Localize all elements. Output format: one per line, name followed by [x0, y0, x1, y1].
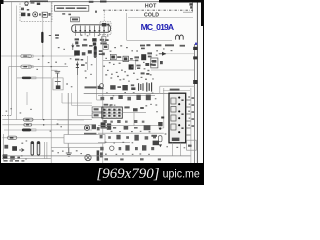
wire left vertical bus 2: [16, 6, 18, 120]
CN801 bottom marks: [172, 138, 180, 141]
schematic right border: [196, 2, 198, 163]
wire vertical from C808: [96, 58, 98, 100]
inner corner line horizontal: [183, 11, 193, 13]
wire bus y1256: [98, 125, 158, 127]
rectifier cluster: [122, 85, 127, 90]
fusible resistor R801 dark bar: [41, 32, 43, 43]
svg-text:upic.me: upic.me: [163, 168, 200, 181]
cluster right edge bc: [97, 150, 103, 160]
capacitor C805: [55, 71, 61, 78]
wire feedback horizontal: [151, 69, 194, 71]
connector label box T801: [71, 17, 80, 22]
junction dot line1: [42, 55, 43, 56]
wire left vertical bus 3: [8, 67, 10, 136]
regulator text row: [84, 133, 96, 135]
svg-text:HOT: HOT: [145, 3, 157, 9]
CN801 pin leads: [186, 100, 191, 135]
zener cluster: [145, 63, 152, 66]
CN801 inner rect 3: [171, 115, 176, 121]
capacitor C808 label marks: [99, 50, 103, 55]
image right black edge: [203, 0, 204, 185]
cluster row y96 c: [136, 95, 150, 101]
jumper pill J1: [23, 118, 33, 121]
wire vertical from filter: [42, 12, 44, 120]
tick on wire: [161, 117, 164, 119]
wire hot loop corner: [127, 13, 193, 40]
schematic top border: [2, 1, 200, 3]
diode cluster below connector: [153, 141, 162, 148]
regulator cluster circle: [84, 125, 89, 130]
long bottom wire: [2, 155, 191, 157]
relay contact box RL801a: [92, 107, 103, 112]
winding symbol arcs: [176, 35, 184, 40]
text marks: [117, 86, 121, 88]
diode D803: [76, 62, 79, 76]
CN801 inner rect 4: [171, 124, 176, 130]
varistor Z801: [25, 2, 28, 6]
text marks D803: [81, 64, 85, 66]
wire relay line 1: [2, 119, 92, 121]
fuse F801 cluster: [21, 13, 30, 17]
optocoupler IC802: [110, 54, 116, 59]
connector pin dots: [75, 30, 105, 32]
snubber cluster y82 row: [99, 84, 103, 90]
right area text marks: [155, 44, 185, 46]
image top-right corner black: [201, 0, 204, 26]
jumper pill J2: [24, 123, 32, 126]
resistor box R810: [103, 44, 108, 49]
junction dots relay lines: [43, 119, 44, 126]
line filter dashed box: [20, 2, 52, 22]
IC801 grid cells row2: [103, 112, 120, 114]
text marks 301: [89, 1, 94, 3]
degauss dashed box: [100, 22, 111, 35]
title box LINE FILTER: [55, 5, 89, 11]
wire AC line 2: [9, 66, 68, 68]
bottom small marks: [104, 158, 161, 160]
text row y127: [100, 125, 150, 130]
inductor pill L803: [8, 136, 17, 139]
connector pin blob 2: [193, 56, 197, 59]
wire vertical stub x27: [26, 92, 28, 105]
svg-text:COLD: COLD: [144, 13, 159, 19]
BOTTOMRIGHT: [2, 88, 196, 163]
IC801 pin-grid block: [102, 107, 123, 118]
connector pins inside: [76, 26, 109, 32]
text marks Q802: [136, 65, 140, 69]
wire line 3: [17, 77, 52, 79]
fusible resistor R802 dark pill: [22, 77, 36, 80]
wire bus y1332: [98, 132, 164, 134]
wire corner L2: [57, 75, 92, 120]
degauss thermistor marks: [102, 23, 110, 26]
boundary dashed vertical: [103, 11, 105, 22]
BOTTOMCENTER: [51, 75, 111, 161]
relay coil box: [42, 12, 51, 17]
marks right-bottom: [188, 145, 192, 147]
capacitor plates C812: [139, 83, 143, 91]
small box below degauss: [102, 37, 106, 42]
text marks F: [102, 53, 105, 56]
label box SUB: [64, 135, 105, 144]
IC801 label marks: [104, 104, 113, 106]
wire corner L1: [62, 93, 92, 103]
wire above connector: [163, 89, 190, 91]
text marks under pin 3: [83, 39, 86, 41]
svg-text:MC_019A: MC_019A: [141, 22, 175, 32]
diode D801: [71, 44, 74, 51]
wire partial y1426: [98, 142, 130, 144]
top edge dark segment left: [30, 1, 48, 3]
component row y146: [100, 145, 154, 150]
wire vertical Q801: [135, 61, 137, 70]
node triangle mark: [95, 11, 97, 13]
mains transformer connector body: [72, 25, 111, 33]
connector CN801 label marks: [170, 89, 180, 91]
node A label: [160, 61, 163, 64]
startup capacitor C810: [141, 54, 146, 60]
posistor TH801: [33, 12, 41, 17]
wire bottom left bus: [2, 158, 51, 160]
text marks under pin 7: [100, 39, 109, 45]
blue pin mark near frame: [195, 43, 197, 45]
cap C851 end cap: [31, 142, 34, 144]
text marks above C810: [140, 44, 150, 49]
dashed line left: [2, 115, 12, 117]
inner corner line vertical: [191, 2, 193, 12]
connector pin blob 1: [193, 47, 197, 50]
cluster row y96 b: [118, 95, 131, 100]
text marks below connector: [151, 135, 157, 137]
resistor label marks R801: [49, 34, 59, 38]
MIDRIGHT: [84, 44, 198, 163]
IC801 grid cells row3: [103, 115, 120, 117]
wire relay line 2: [2, 124, 92, 126]
capacitor plates C813: [147, 82, 152, 91]
zener cluster left of connector: [158, 122, 162, 130]
wire right of connector vertical: [190, 88, 192, 163]
LEFTCOL: [9, 2, 59, 163]
svg-text:[969x790]: [969x790]: [96, 166, 159, 182]
CN801 inner right marks: [181, 99, 183, 129]
text marks: [131, 84, 136, 90]
wire vertical bottom left: [3, 134, 5, 160]
inductor L802 pill: [21, 65, 33, 68]
wire secondary bus upper: [84, 92, 169, 94]
wire AC line 1: [1, 55, 76, 57]
title box text marks: [57, 7, 87, 9]
transistor Q802 dark: [129, 64, 134, 69]
main filter capacitor C808: [94, 46, 97, 58]
hot-cold isolation dash-dot line: [103, 9, 193, 11]
label box right-bottom: [187, 140, 197, 150]
image top edge black right part: [159, 0, 204, 2]
text marks right of IC801: [124, 106, 143, 111]
bridge rectifier D802 cluster: [74, 50, 92, 55]
electrolytic cap box C806: [53, 78, 63, 90]
thick bus wire: [85, 86, 98, 88]
fusible pill dark J3: [22, 129, 36, 132]
ground symbol: [66, 148, 72, 157]
MIDCENTER: [51, 44, 102, 101]
regulator cluster marks: [92, 124, 100, 130]
label text marks top: [30, 2, 40, 5]
wire corner L1b: [72, 93, 92, 106]
connector pin blob 3: [193, 80, 197, 84]
bus end marks: [98, 86, 101, 89]
text marks under bridge: [75, 59, 83, 61]
error amp IC803 box: [151, 58, 158, 68]
wire control row: [103, 60, 136, 62]
lamp component circle: [85, 155, 91, 161]
wire y1477: [51, 147, 103, 149]
zener cluster bl2 dark: [12, 146, 17, 151]
resistor marks row y72: [141, 72, 150, 74]
wire right inner vertical: [193, 44, 195, 163]
wire relay line 3: [4, 129, 92, 131]
wire vertical left of connector: [158, 88, 164, 128]
diode cluster: [110, 85, 115, 89]
component row under IC801: [103, 120, 144, 123]
footer black bar: [0, 163, 204, 185]
relay contact box RL801b: [92, 113, 103, 118]
wire stub left of label: [62, 13, 71, 15]
CN801 pin dots: [178, 97, 180, 134]
tiny text row bottom left: [3, 160, 24, 162]
top edge dark tick center: [100, 1, 107, 3]
cap C852 end cap: [37, 142, 40, 144]
connector CN801 body: [169, 93, 186, 143]
component row y135: [100, 135, 156, 141]
MIDTOP: [55, 1, 193, 163]
electrolytic capacitor C851 tall: [31, 142, 34, 155]
text specks texture: [6, 35, 191, 160]
wire vertical from bridge: [87, 56, 89, 70]
text marks R803: [76, 44, 92, 47]
dark box bl3: [3, 154, 8, 159]
dark cluster right of regulator: [101, 122, 112, 129]
small component top right: [189, 3, 192, 8]
wires below connector: [173, 143, 181, 156]
MIDLEFT: [1, 55, 76, 80]
switching transistor Q801 box: [123, 56, 128, 61]
CN801 inner rect 2: [171, 106, 176, 112]
wire vertical long left-center: [50, 2, 52, 163]
text marks: [130, 56, 139, 61]
electrolytic capacitor C852 tall: [37, 142, 40, 155]
wire lower feedback: [160, 86, 195, 93]
capacitor cluster under pin 5 dark: [92, 38, 96, 45]
wire line 4: [2, 137, 64, 139]
capacitor C801 marks: [21, 8, 29, 11]
feedback arrow: [159, 52, 195, 56]
RIGHTTOP: [103, 3, 197, 45]
wire verticals caps: [45, 142, 47, 159]
CN801 pin labels: [191, 97, 194, 127]
diode cluster bl1: [4, 145, 8, 149]
arrow mark bl: [19, 148, 24, 151]
BOTTOMLEFT: [2, 92, 92, 162]
CN801 inner rect 1: [171, 98, 176, 104]
image top-left corner blob: [0, 0, 4, 4]
wire vertical long center: [102, 35, 104, 163]
wire left vertical bus 1: [11, 2, 13, 116]
wire vertical bus dark: [67, 93, 69, 148]
marks bl4: [10, 156, 20, 160]
inductor L801 pill: [21, 55, 33, 58]
wire stub y70: [51, 69, 57, 71]
connector pin leads below: [76, 32, 104, 36]
capacitor cluster under pin 1: [75, 38, 79, 44]
vertical pill cap: [158, 136, 162, 142]
IC801 grid inner lines: [102, 107, 123, 118]
image left black edge: [0, 0, 1, 165]
text marks right of opto: [117, 56, 121, 58]
wire from IC801 right: [122, 112, 146, 125]
junction dot line2: [51, 66, 52, 67]
cluster row y96 a: [100, 97, 113, 100]
text marks R815: [147, 52, 152, 57]
IC801 grid cells row1: [103, 109, 120, 111]
wire corner L3: [97, 99, 103, 101]
wire secondary bus lower: [98, 94, 155, 96]
